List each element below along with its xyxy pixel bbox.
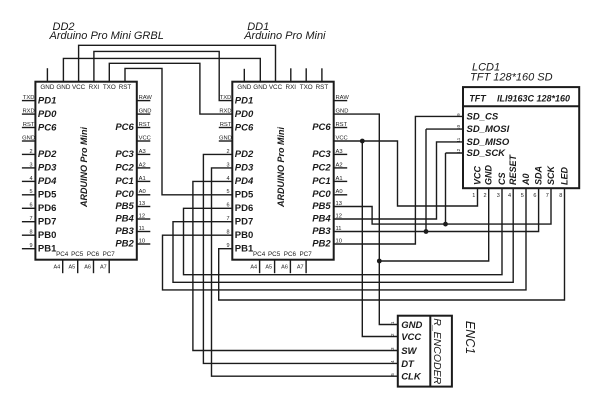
wire net reset: DD2 RST to DD1 pin 5 PD5 bbox=[125, 68, 232, 194]
DD1 top RXI pin open stub wire bbox=[290, 68, 292, 81]
wire net encoder CLK: DD1 pin 3 PD3 to ENC1 CLK bbox=[212, 168, 398, 376]
LCD module LCD1 body bbox=[463, 87, 579, 188]
DD2 left pin GND stub wire bbox=[22, 140, 36, 142]
svg-text:A2: A2 bbox=[336, 162, 343, 168]
DD2 right pin RAW stub wire bbox=[137, 100, 151, 102]
svg-text:RST: RST bbox=[23, 122, 35, 128]
svg-text:SD_MISO: SD_MISO bbox=[467, 137, 510, 148]
svg-text:6: 6 bbox=[30, 203, 33, 209]
svg-text:2: 2 bbox=[483, 193, 486, 199]
DD2 bottom pin A4 stub wire bbox=[62, 260, 64, 274]
svg-text:A0: A0 bbox=[139, 189, 146, 195]
svg-text:VCC: VCC bbox=[72, 84, 86, 91]
svg-text:PB1: PB1 bbox=[38, 244, 57, 255]
svg-text:TXD: TXD bbox=[23, 95, 35, 101]
svg-text:A5: A5 bbox=[68, 264, 75, 270]
svg-text:GND: GND bbox=[237, 84, 251, 91]
svg-text:A5: A5 bbox=[265, 264, 272, 270]
DD1 bottom pin A4 stub wire bbox=[259, 260, 261, 274]
svg-text:RAW: RAW bbox=[139, 95, 153, 101]
DD1 left pin GND stub wire bbox=[219, 140, 233, 142]
svg-text:PC6: PC6 bbox=[284, 251, 297, 258]
LCD1 header separator line bbox=[463, 105, 579, 107]
wire net GND: DD2 GND to DD1 GND bbox=[63, 58, 260, 81]
DD1 bottom pin A5 stub wire bbox=[274, 260, 276, 274]
svg-text:PC3: PC3 bbox=[312, 149, 331, 160]
svg-text:RST: RST bbox=[316, 84, 329, 91]
wire net LCD RESET: DD1 pin 7 PD7 to LCD1 pin 4 RESET bbox=[173, 188, 513, 282]
svg-text:A4: A4 bbox=[53, 264, 60, 270]
DD1 top RST pin open stub wire bbox=[321, 68, 323, 81]
svg-text:ARDUINO Pro Mini: ARDUINO Pro Mini bbox=[276, 127, 286, 208]
svg-text:PD4: PD4 bbox=[38, 176, 57, 187]
svg-text:PB0: PB0 bbox=[235, 230, 253, 241]
svg-text:VCC: VCC bbox=[473, 165, 483, 185]
svg-text:PC6: PC6 bbox=[38, 122, 57, 133]
svg-text:PB5: PB5 bbox=[312, 201, 331, 212]
DD1 right pin RAW stub wire bbox=[334, 100, 348, 102]
svg-text:A6: A6 bbox=[84, 264, 91, 270]
svg-text:RST: RST bbox=[220, 122, 232, 128]
DD2 bottom pin A5 stub wire bbox=[77, 260, 79, 274]
DD1 Arduino Pro Mini IC body bbox=[232, 82, 333, 260]
svg-text:RST: RST bbox=[336, 122, 348, 128]
DD2 right pin A3 stub wire bbox=[137, 153, 151, 155]
DD2 right pin 13 stub wire bbox=[137, 206, 151, 208]
svg-text:PC1: PC1 bbox=[115, 176, 133, 187]
svg-text:8: 8 bbox=[30, 230, 33, 236]
svg-text:8: 8 bbox=[559, 193, 562, 199]
svg-text:PD2: PD2 bbox=[38, 149, 57, 160]
DD2 left pin 9 stub wire bbox=[22, 248, 36, 250]
svg-text:PD5: PD5 bbox=[38, 190, 57, 201]
svg-text:PC4: PC4 bbox=[56, 251, 69, 258]
svg-text:5: 5 bbox=[30, 189, 33, 195]
svg-text:PC0: PC0 bbox=[115, 189, 134, 200]
svg-text:RESET: RESET bbox=[508, 153, 518, 185]
svg-text:A6: A6 bbox=[281, 264, 288, 270]
wire net SPI MISO: DD1 pin 12 to LCD1 SD_MISO bbox=[334, 142, 463, 219]
svg-text:A1: A1 bbox=[336, 176, 343, 182]
svg-text:PD5: PD5 bbox=[235, 190, 254, 201]
DD2 left pin RXD stub wire bbox=[22, 113, 36, 115]
DD2 right pin 10 stub wire bbox=[137, 243, 151, 245]
junction SPI SCK net at SD_SCK riser bbox=[443, 222, 448, 227]
DD2 right pin RST stub wire bbox=[137, 127, 151, 129]
DD2 left pin 2 stub wire bbox=[22, 153, 36, 155]
svg-text:PB5: PB5 bbox=[115, 201, 134, 212]
wire net SPI SCK branch: LCD1 SD_SCK riser bbox=[445, 153, 447, 224]
svg-text:2: 2 bbox=[30, 149, 33, 155]
svg-text:SDA: SDA bbox=[534, 166, 544, 185]
DD1 left pin RST stub wire bbox=[219, 127, 233, 129]
svg-text:SW: SW bbox=[401, 346, 417, 357]
DD2 right pin GND stub wire bbox=[137, 113, 151, 115]
junction VCC net at encoder riser bbox=[360, 139, 365, 144]
svg-text:PC3: PC3 bbox=[115, 149, 134, 160]
DD1 top GND pin open stub wire bbox=[243, 69, 245, 82]
svg-text:PC7: PC7 bbox=[103, 251, 116, 258]
svg-text:PC6: PC6 bbox=[87, 251, 100, 258]
svg-text:PD7: PD7 bbox=[38, 217, 56, 228]
svg-text:A7: A7 bbox=[297, 264, 304, 270]
wire net SPI MOSI branch: LCD1 SD_MOSI riser bbox=[425, 129, 427, 231]
svg-text:PC4: PC4 bbox=[253, 251, 266, 258]
DD2 left pin TXD stub wire bbox=[22, 100, 36, 102]
svg-text:RST: RST bbox=[139, 122, 151, 128]
svg-text:GND: GND bbox=[22, 135, 35, 141]
svg-text:RXD: RXD bbox=[22, 109, 34, 115]
svg-text:LED: LED bbox=[560, 166, 570, 185]
svg-text:TXO: TXO bbox=[103, 84, 116, 91]
svg-text:TFT 128*160 SD: TFT 128*160 SD bbox=[470, 72, 553, 84]
svg-text:SD_CS: SD_CS bbox=[467, 111, 499, 122]
wire net encoder DT: DD1 pin 2 PD2 to ENC1 DT bbox=[203, 154, 397, 363]
svg-text:PC1: PC1 bbox=[312, 176, 330, 187]
svg-text:PC6: PC6 bbox=[235, 122, 254, 133]
DD2 right pin 11 stub wire bbox=[137, 231, 151, 233]
svg-text:PC2: PC2 bbox=[312, 162, 331, 173]
svg-text:PD3: PD3 bbox=[38, 163, 57, 174]
DD2 left pin 6 stub wire bbox=[22, 207, 36, 209]
svg-text:CLK: CLK bbox=[401, 372, 422, 383]
DD2 bottom pin A6 stub wire bbox=[93, 260, 95, 274]
svg-text:PC6: PC6 bbox=[312, 122, 331, 133]
svg-text:A7: A7 bbox=[100, 264, 107, 270]
wire net VCC: DD2 VCC to DD1 VCC bbox=[79, 45, 276, 81]
svg-text:GND: GND bbox=[401, 320, 422, 331]
svg-text:PD6: PD6 bbox=[38, 203, 56, 214]
wire net LCD CS: DD1 pin 6 PD6 to LCD1 pin 3 CS bbox=[184, 188, 503, 275]
svg-text:RAW: RAW bbox=[336, 95, 350, 101]
svg-text:PB3: PB3 bbox=[312, 226, 331, 237]
svg-text:PC5: PC5 bbox=[268, 251, 281, 258]
LCD1 SD_MOSI pin stub wire bbox=[426, 128, 463, 130]
svg-text:GND: GND bbox=[40, 84, 54, 91]
svg-text:VCC: VCC bbox=[269, 84, 283, 91]
DD1 right pin A1 stub wire bbox=[334, 180, 348, 182]
svg-text:RXI: RXI bbox=[286, 84, 297, 91]
svg-text:PB1: PB1 bbox=[235, 244, 254, 255]
svg-text:3: 3 bbox=[30, 162, 33, 168]
junction SPI MOSI net at SD_MOSI riser bbox=[424, 229, 429, 234]
DD2 left pin 7 stub wire bbox=[22, 221, 36, 223]
svg-text:RST: RST bbox=[119, 84, 132, 91]
svg-text:PC0: PC0 bbox=[312, 189, 331, 200]
svg-text:6: 6 bbox=[533, 193, 536, 199]
svg-text:PD7: PD7 bbox=[235, 217, 253, 228]
svg-text:A3: A3 bbox=[139, 149, 146, 155]
svg-text:A2: A2 bbox=[139, 162, 146, 168]
svg-text:SCK: SCK bbox=[546, 164, 556, 185]
DD2 right pin A2 stub wire bbox=[137, 167, 151, 169]
svg-text:TXO: TXO bbox=[300, 84, 313, 91]
svg-text:A0: A0 bbox=[336, 189, 343, 195]
svg-text:10: 10 bbox=[139, 238, 145, 244]
svg-text:PB2: PB2 bbox=[115, 238, 134, 249]
svg-text:GND: GND bbox=[139, 109, 152, 115]
wire net LCD LED: DD1 pin 9 PB1 to LCD1 pin 8 LED bbox=[219, 188, 565, 300]
DD2 right pin A1 stub wire bbox=[137, 180, 151, 182]
wire net SPI SCK: DD1 pin 13 to LCD1 pin 7 SCK bbox=[334, 188, 551, 224]
DD1 top TXO pin open stub wire bbox=[305, 68, 307, 81]
wire net VCC branch to ENC1 VCC bbox=[362, 141, 398, 337]
svg-text:PD0: PD0 bbox=[38, 109, 57, 120]
DD2 Arduino Pro Mini IC body bbox=[35, 82, 136, 260]
svg-text:PD3: PD3 bbox=[235, 163, 254, 174]
svg-text:Arduino Pro Mini GRBL: Arduino Pro Mini GRBL bbox=[49, 30, 164, 42]
DD2 left pin 5 stub wire bbox=[22, 194, 36, 196]
rotary encoder ENC1 body bbox=[398, 316, 452, 387]
svg-text:Arduino Pro Mini: Arduino Pro Mini bbox=[243, 30, 326, 42]
svg-text:ENC1: ENC1 bbox=[463, 321, 477, 354]
svg-text:A1: A1 bbox=[139, 176, 146, 182]
svg-text:PD2: PD2 bbox=[235, 149, 254, 160]
wire net serial: DD2 RXI to DD1 TXD bbox=[94, 51, 232, 100]
svg-text:PD4: PD4 bbox=[235, 176, 254, 187]
svg-text:CS: CS bbox=[497, 172, 507, 185]
DD2 right pin 12 stub wire bbox=[137, 218, 151, 220]
svg-text:A0: A0 bbox=[521, 173, 531, 186]
svg-text:ARDUINO Pro Mini: ARDUINO Pro Mini bbox=[79, 127, 89, 208]
svg-text:11: 11 bbox=[139, 226, 145, 232]
wire net GND: DD1 GND down to ENC1 GND bbox=[334, 114, 398, 324]
svg-text:A4: A4 bbox=[250, 264, 257, 270]
wire net GND branch to LCD1 pin 2 GND bbox=[379, 188, 488, 261]
svg-text:PD0: PD0 bbox=[235, 109, 254, 120]
svg-text:PD1: PD1 bbox=[235, 95, 253, 106]
svg-text:PD6: PD6 bbox=[235, 203, 253, 214]
DD2 left pin 3 stub wire bbox=[22, 167, 36, 169]
svg-text:13: 13 bbox=[139, 201, 145, 207]
svg-text:7: 7 bbox=[30, 216, 33, 222]
LCD1 SD_SCK pin stub wire bbox=[446, 152, 464, 154]
svg-text:7: 7 bbox=[546, 193, 549, 199]
DD2 left pin 8 stub wire bbox=[22, 234, 36, 236]
wire net VCC: DD1 VCC to LCD1 pin 1 VCC bbox=[334, 141, 478, 206]
svg-text:GND: GND bbox=[484, 165, 494, 186]
svg-text:GND: GND bbox=[56, 84, 70, 91]
svg-text:PD1: PD1 bbox=[38, 95, 56, 106]
DD2 left pin 4 stub wire bbox=[22, 180, 36, 182]
svg-text:A3: A3 bbox=[336, 149, 343, 155]
DD2 bottom pin A7 stub wire bbox=[108, 260, 110, 274]
svg-text:TFT: TFT bbox=[469, 93, 487, 103]
svg-text:GND: GND bbox=[253, 84, 267, 91]
svg-text:4: 4 bbox=[508, 193, 511, 199]
DD1 right pin A3 stub wire bbox=[334, 153, 348, 155]
DD1 right pin A2 stub wire bbox=[334, 167, 348, 169]
svg-text:PB4: PB4 bbox=[115, 213, 134, 224]
svg-text:SD_MOSI: SD_MOSI bbox=[467, 124, 510, 135]
svg-text:PB2: PB2 bbox=[312, 238, 331, 249]
svg-text:R_ENCODER: R_ENCODER bbox=[431, 318, 443, 384]
svg-text:PC6: PC6 bbox=[115, 122, 134, 133]
svg-text:VCC: VCC bbox=[139, 135, 151, 141]
wire net LCD A0: DD1 pin 8 PB0 to LCD1 pin 5 A0 bbox=[163, 188, 527, 290]
DD2 left pin RST stub wire bbox=[22, 127, 36, 129]
DD1 bottom pin A7 stub wire bbox=[305, 260, 307, 274]
svg-text:RXI: RXI bbox=[89, 84, 100, 91]
wire net encoder SW: DD1 pin 4 PD4 to ENC1 SW bbox=[193, 181, 398, 350]
svg-text:5: 5 bbox=[521, 193, 524, 199]
svg-text:SD_SCK: SD_SCK bbox=[467, 148, 507, 159]
svg-text:PB3: PB3 bbox=[115, 226, 134, 237]
DD1 right pin RST stub wire bbox=[334, 127, 348, 129]
svg-text:9: 9 bbox=[30, 243, 33, 249]
wire net SD chip select: DD1 pin 10 PB2 to LCD1 SD_CS bbox=[334, 116, 463, 244]
svg-text:PC2: PC2 bbox=[115, 162, 134, 173]
svg-text:GND: GND bbox=[219, 135, 232, 141]
DD2 right pin A0 stub wire bbox=[137, 194, 151, 196]
wire net serial: DD2 TXO to DD1 RXD bbox=[109, 63, 232, 114]
svg-text:1: 1 bbox=[472, 193, 475, 199]
DD1 bottom pin A6 stub wire bbox=[289, 260, 291, 274]
svg-text:3: 3 bbox=[497, 193, 500, 199]
wire net SPI MOSI: DD1 pin 11 to LCD1 pin 6 SDA bbox=[334, 188, 539, 231]
svg-text:PC7: PC7 bbox=[299, 251, 312, 258]
svg-text:PC5: PC5 bbox=[71, 251, 84, 258]
svg-text:PB4: PB4 bbox=[312, 213, 331, 224]
svg-text:PB0: PB0 bbox=[38, 230, 56, 241]
svg-text:VCC: VCC bbox=[401, 332, 421, 343]
DD2 top GND pin open stub wire bbox=[46, 68, 48, 82]
svg-text:DT: DT bbox=[401, 359, 415, 370]
svg-text:ILI9163C 128*160: ILI9163C 128*160 bbox=[497, 93, 570, 103]
svg-text:12: 12 bbox=[139, 213, 145, 219]
DD1 right pin A0 stub wire bbox=[334, 194, 348, 196]
svg-text:4: 4 bbox=[30, 176, 33, 182]
ENC1 internal divider line bbox=[429, 316, 431, 387]
DD2 right pin VCC stub wire bbox=[137, 140, 151, 142]
junction GND net at encoder riser bbox=[377, 259, 382, 264]
